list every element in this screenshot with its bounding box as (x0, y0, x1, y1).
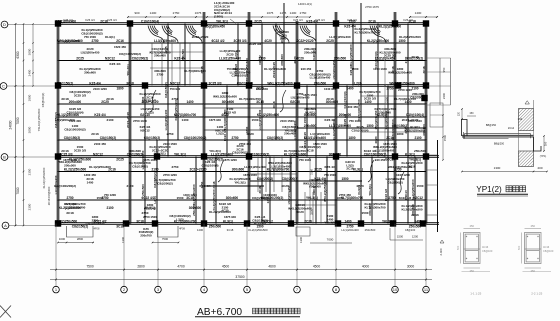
svg-text:200: 200 (537, 166, 542, 170)
svg-text:6300: 6300 (16, 51, 20, 58)
svg-text:KL7(3)300x700: KL7(3)300x700 (223, 109, 227, 130)
svg-text:KL9(1): KL9(1) (105, 35, 115, 39)
svg-text:L2(3): L2(3) (176, 217, 183, 221)
column KZ9 (142, 82, 148, 88)
column KZ20 (246, 153, 252, 159)
svg-text:4600: 4600 (268, 264, 276, 268)
axis bubble 10 (392, 286, 399, 293)
svg-text:2100: 2100 (127, 184, 134, 188)
svg-text:1500: 1500 (443, 134, 447, 141)
svg-text:YKL3(1): YKL3(1) (324, 221, 335, 225)
svg-text:L1(1)200x400: L1(1)200x400 (341, 228, 359, 232)
title underline (195, 316, 300, 318)
svg-text:3C18: 3C18 (116, 225, 124, 229)
svg-text:2C22+2C20: 2C22+2C20 (303, 132, 307, 148)
bay dim numbers (63, 35, 422, 219)
svg-text:2C25: 2C25 (164, 46, 168, 54)
svg-text:C10@100(4): C10@100(4) (374, 51, 378, 68)
svg-text:C8@200(2): C8@200(2) (282, 177, 298, 181)
svg-text:KL1(2)250x600: KL1(2)250x600 (332, 119, 336, 140)
svg-text:1520 300: 1520 300 (69, 119, 81, 123)
beam x216 (215, 157, 217, 224)
beam x284 (283, 3, 285, 86)
svg-text:7500: 7500 (162, 237, 169, 241)
svg-text:250x500: 250x500 (304, 124, 317, 128)
column line x130 (128, 21, 130, 224)
svg-text:C8@100: C8@100 (543, 249, 554, 253)
column KZ23 (423, 153, 429, 159)
svg-text:2C16: 2C16 (411, 213, 419, 217)
YP1 bottom rebar (464, 132, 509, 139)
column KZ28 (244, 220, 250, 226)
subcell block 3 (361, 95, 426, 97)
svg-text:N2C12: N2C12 (258, 55, 262, 65)
YP1 left dim (461, 109, 463, 119)
svg-text:C8@100/200(2): C8@100/200(2) (54, 184, 76, 188)
svg-text:1400: 1400 (182, 118, 189, 122)
svg-text:2750: 2750 (231, 136, 238, 140)
column KZ12 (294, 82, 300, 88)
beam x145 (144, 86, 146, 224)
svg-text:C8@200(2): C8@200(2) (232, 151, 247, 155)
svg-text:6C22 4/2: 6C22 4/2 (384, 189, 388, 202)
svg-text:3C25 3/3: 3C25 3/3 (74, 148, 87, 152)
svg-text:250: 250 (531, 269, 536, 273)
svg-text:2C25: 2C25 (326, 39, 334, 43)
axis B leader (8, 156, 58, 158)
axis bubble A (2, 222, 9, 229)
svg-text:YKL3(1): YKL3(1) (209, 149, 221, 153)
axis bubble 11 (423, 286, 430, 293)
svg-text:2-2 1:25: 2-2 1:25 (531, 292, 542, 296)
svg-text:2100: 2100 (107, 118, 114, 122)
svg-text:LL3(1)250x400: LL3(1)250x400 (304, 136, 326, 140)
svg-text:2C22+2C20: 2C22+2C20 (126, 112, 130, 128)
top dimension line (128, 16, 310, 18)
column KZ30 (335, 220, 341, 226)
extra clusters (54, 35, 426, 217)
axis bubble 3 (155, 286, 162, 293)
svg-text:KL2(2)250x500: KL2(2)250x500 (212, 189, 216, 210)
svg-text:4C20: 4C20 (264, 39, 272, 43)
svg-text:N2C12: N2C12 (93, 152, 103, 156)
svg-text:2C22+2C20: 2C22+2C20 (192, 35, 209, 39)
svg-text:C8@200(2): C8@200(2) (257, 177, 273, 181)
interior vdim x385 (384, 60, 386, 156)
svg-text:AB+6.700: AB+6.700 (197, 307, 242, 318)
beam x378 (377, 24, 379, 157)
svg-text:L2(3): L2(3) (146, 110, 153, 114)
svg-text:1500: 1500 (366, 124, 373, 128)
svg-text:300x600: 300x600 (280, 54, 284, 66)
svg-text:C8@150(2): C8@150(2) (144, 136, 160, 140)
svg-text:C8@150(2): C8@150(2) (64, 136, 80, 140)
svg-text:C10@100(4): C10@100(4) (201, 163, 218, 167)
svg-text:N2C12: N2C12 (170, 81, 180, 85)
svg-text:6C22 4/2: 6C22 4/2 (212, 39, 225, 43)
section detail 1 (461, 229, 481, 269)
svg-text:2100 1200: 2100 1200 (93, 87, 107, 91)
svg-text:1200: 1200 (412, 235, 419, 239)
svg-text:1400: 1400 (197, 228, 204, 232)
beam x327 (326, 157, 328, 224)
YP1 step (534, 137, 542, 151)
right edge rungs (426, 154, 438, 156)
svg-text:L2(3): L2(3) (153, 196, 157, 203)
svg-text:2350: 2350 (28, 168, 32, 175)
svg-text:2C16: 2C16 (61, 149, 69, 153)
svg-text:500: 500 (517, 245, 521, 250)
svg-text:N2C12: N2C12 (312, 185, 316, 195)
svg-text:2.400: 2.400 (439, 248, 443, 255)
svg-text:3C25 3/3: 3C25 3/3 (74, 93, 87, 97)
svg-text:2C16: 2C16 (326, 97, 334, 101)
svg-text:2100: 2100 (404, 56, 408, 63)
svg-text:L5(2)200x450: L5(2)200x450 (86, 222, 105, 226)
sub dim right (390, 228, 423, 240)
svg-text:1400 450: 1400 450 (84, 173, 96, 177)
svg-text:WKL2(2)250x600: WKL2(2)250x600 (245, 58, 249, 82)
svg-text:KL1(2)250x600: KL1(2)250x600 (349, 44, 353, 65)
svg-text:2800: 2800 (137, 264, 145, 268)
svg-text:3C18: 3C18 (136, 219, 144, 223)
svg-text:L5(2)200x450: L5(2)200x450 (332, 60, 336, 79)
grid line D beam (56, 22, 427, 24)
interior vdim x310 (309, 158, 311, 222)
svg-text:KZ6 4/4: KZ6 4/4 (107, 18, 117, 22)
beam x408 (407, 24, 409, 224)
svg-text:L2(3): L2(3) (234, 51, 238, 58)
svg-text:N2C12: N2C12 (140, 128, 150, 132)
svg-text:3C18: 3C18 (422, 66, 426, 74)
beam x361 (360, 3, 362, 224)
svg-text:G2C10: G2C10 (385, 158, 395, 162)
svg-text:(YP1): (YP1) (540, 155, 547, 158)
svg-text:1300: 1300 (121, 237, 125, 243)
svg-text:3C18: 3C18 (306, 148, 314, 152)
svg-text:2C16: 2C16 (116, 39, 124, 43)
column KZ13 (333, 82, 339, 88)
grid line C beam (56, 84, 427, 86)
svg-text:KL2(2)250x500: KL2(2)250x500 (248, 228, 268, 232)
svg-text:2C25: 2C25 (304, 219, 312, 223)
mid leader curves (150, 90, 404, 194)
svg-text:250x500: 250x500 (314, 81, 327, 85)
svg-text:KL9(1): KL9(1) (353, 167, 363, 171)
column KZ11 (246, 82, 252, 88)
beam x372 (371, 157, 373, 224)
svg-text:G2C10: G2C10 (312, 50, 316, 60)
svg-text:KZ6 4/4: KZ6 4/4 (403, 18, 413, 22)
svg-text:250x500: 250x500 (334, 56, 347, 60)
svg-text:C8@150(2): C8@150(2) (153, 172, 157, 187)
svg-text:1400 L3(1): 1400 L3(1) (298, 2, 312, 6)
svg-text:C8@150(2): C8@150(2) (57, 81, 73, 85)
svg-text:2800: 2800 (77, 237, 84, 241)
column KZ33 (420, 220, 426, 226)
svg-text:C14: C14 (518, 118, 523, 121)
beam y43 (58, 42, 426, 44)
svg-text:2100 450: 2100 450 (94, 142, 106, 146)
svg-text:2C16: 2C16 (346, 167, 354, 171)
svg-text:B: B (3, 154, 6, 159)
svg-text:KZ6 4/4: KZ6 4/4 (63, 18, 73, 22)
right dim ladder2 (442, 115, 444, 160)
svg-text:6C22 4/2: 6C22 4/2 (254, 222, 267, 226)
svg-text:1400: 1400 (414, 219, 421, 223)
svg-text:KZ6 4/4: KZ6 4/4 (89, 81, 101, 85)
column KZ15 (423, 82, 429, 88)
column KZ25 (123, 220, 129, 226)
svg-text:WKL2(2)250x600: WKL2(2)250x600 (388, 165, 413, 169)
svg-text:250x500: 250x500 (141, 184, 145, 196)
svg-text:150: 150 (469, 112, 474, 115)
svg-text:1040 1040: 1040 1040 (373, 67, 387, 71)
svg-text:L1(1)200x400: L1(1)200x400 (384, 110, 388, 129)
svg-text:C8@200(2): C8@200(2) (157, 181, 172, 185)
svg-text:2750: 2750 (167, 132, 174, 136)
svg-text:L5(2)200x450: L5(2)200x450 (60, 39, 80, 43)
column KZ22 (392, 153, 398, 159)
svg-text:10: 10 (393, 287, 398, 292)
svg-text:KL1(2)250x600: KL1(2)250x600 (89, 165, 111, 169)
svg-text:LL3(1)250x400: LL3(1)250x400 (258, 109, 262, 130)
svg-text:2750: 2750 (173, 11, 180, 15)
svg-text:2400: 2400 (28, 69, 32, 76)
column KZ1 (55, 20, 61, 26)
svg-text:2750 1200: 2750 1200 (163, 173, 177, 177)
svg-text:C8@150(2): C8@150(2) (100, 136, 116, 140)
column KZ26 (152, 220, 158, 226)
svg-text:4C20: 4C20 (281, 184, 289, 188)
svg-text:C: C (2, 83, 5, 88)
svg-text:6C22 4/2: 6C22 4/2 (399, 196, 412, 200)
svg-text:YKL3(1): YKL3(1) (306, 196, 318, 200)
axis dropper 8 (335, 224, 337, 287)
beam x388 (387, 86, 389, 224)
svg-text:2C22+2C20: 2C22+2C20 (189, 167, 206, 171)
beam annotations (55, 19, 424, 228)
axis bubble 2 (121, 286, 128, 293)
svg-text:7000: 7000 (16, 187, 20, 194)
svg-text:3C25 3/3: 3C25 3/3 (209, 81, 222, 85)
svg-text:250: 250 (531, 224, 536, 228)
svg-text:2C14: 2C14 (508, 126, 515, 130)
svg-text:750 1500: 750 1500 (324, 173, 336, 177)
svg-text:200x400: 200x400 (69, 100, 82, 104)
svg-text:300x600: 300x600 (129, 149, 141, 153)
svg-text:WKL2(2)250x600: WKL2(2)250x600 (323, 178, 327, 202)
svg-text:940 450: 940 450 (301, 67, 312, 71)
YP1 left upturn (462, 120, 468, 137)
svg-text:C8@200: C8@200 (405, 228, 416, 232)
left subdim vertical (32, 24, 34, 86)
svg-text:KL7(3)300x700: KL7(3)300x700 (184, 69, 206, 73)
svg-text:C10@100(4): C10@100(4) (351, 128, 368, 132)
svg-text:1400: 1400 (290, 11, 297, 15)
svg-text:940 450: 940 450 (375, 158, 386, 162)
svg-text:2C25: 2C25 (76, 56, 84, 60)
svg-text:1400: 1400 (150, 11, 157, 15)
svg-text:4C20: 4C20 (374, 136, 378, 144)
dim slashes on beams (57, 23, 59, 25)
svg-text:KL2(2)250x500: KL2(2)250x500 (379, 25, 402, 29)
YP1 detail slab (462, 134, 534, 136)
YP1 wall top line (533, 100, 535, 109)
YP1 right dim (543, 136, 545, 151)
svg-text:250: 250 (470, 269, 475, 273)
svg-text:2750: 2750 (388, 196, 395, 200)
svg-text:250x500: 250x500 (414, 149, 426, 153)
svg-text:C8@100/200(2): C8@100/200(2) (247, 152, 270, 156)
svg-text:300x600: 300x600 (226, 196, 239, 200)
svg-text:LL3(1)250x400: LL3(1)250x400 (164, 109, 168, 130)
svg-text:KZ6 4/4: KZ6 4/4 (315, 18, 325, 22)
vertical beam annotations (54, 36, 426, 216)
svg-text:KL9(1): KL9(1) (305, 110, 314, 114)
svg-text:1520 1500: 1520 1500 (313, 142, 327, 146)
svg-text:250x500: 250x500 (64, 163, 76, 167)
beam y200 (58, 199, 426, 201)
svg-text:1520 1040: 1520 1040 (408, 119, 422, 123)
svg-text:750 1200: 750 1200 (104, 193, 116, 197)
svg-text:B8@200: B8@200 (494, 142, 505, 146)
svg-text:1800: 1800 (28, 94, 32, 101)
svg-text:2750: 2750 (172, 165, 179, 169)
svg-text:YKL10(1)250x500: YKL10(1)250x500 (37, 108, 41, 131)
svg-text:2750: 2750 (172, 97, 179, 101)
axis dropper 11 (425, 224, 427, 287)
beam y171.5 (58, 171, 426, 173)
svg-text:LL3(1)250x400: LL3(1)250x400 (154, 39, 176, 43)
svg-text:YKL3(1): YKL3(1) (368, 184, 372, 195)
svg-text:KL2(2)250x500: KL2(2)250x500 (55, 219, 78, 223)
svg-text:YP1(2): YP1(2) (476, 185, 502, 194)
svg-text:3C25 3/3: 3C25 3/3 (144, 99, 157, 103)
svg-text:2100: 2100 (414, 136, 421, 140)
svg-text:3150: 3150 (385, 97, 389, 103)
svg-text:1300: 1300 (299, 237, 303, 243)
svg-text:1675 1200: 1675 1200 (223, 158, 237, 162)
svg-text:3C25 3/3: 3C25 3/3 (234, 39, 247, 43)
svg-text:300x600: 300x600 (84, 70, 96, 74)
svg-text:750 1040: 750 1040 (299, 158, 311, 162)
svg-text:3C18: 3C18 (126, 81, 134, 85)
column KZ4 (246, 20, 252, 26)
svg-text:LL3(1)250x400: LL3(1)250x400 (270, 164, 291, 168)
svg-text:1500: 1500 (303, 116, 307, 123)
svg-text:300x600: 300x600 (222, 100, 235, 104)
svg-text:WKL2(2)250x600: WKL2(2)250x600 (213, 94, 237, 98)
svg-text:4F08: 4F08 (179, 228, 185, 231)
svg-text:WKL2(2)250x600: WKL2(2)250x600 (389, 81, 415, 85)
svg-text:4500: 4500 (313, 264, 321, 268)
axis bubble B (1, 154, 8, 161)
axis dropper 2 (123, 224, 125, 287)
svg-text:C8@150(2): C8@150(2) (164, 82, 168, 97)
svg-text:1500: 1500 (417, 184, 424, 188)
svg-text:YKL3(1): YKL3(1) (154, 152, 165, 156)
svg-text:KZ6 4/4: KZ6 4/4 (347, 18, 357, 22)
beam y181 (250, 180, 362, 182)
svg-text:4C20: 4C20 (280, 36, 284, 44)
top note block (214, 1, 235, 19)
svg-text:3C25 3/3: 3C25 3/3 (249, 42, 262, 46)
svg-text:1040 1200: 1040 1200 (396, 173, 410, 177)
svg-text:24600: 24600 (9, 120, 13, 129)
beam x276 (275, 24, 277, 141)
svg-text:2750: 2750 (66, 196, 73, 200)
svg-text:1800: 1800 (397, 132, 404, 136)
svg-text:KL12(1)250x500: KL12(1)250x500 (42, 167, 46, 188)
axis dropper 1 (55, 224, 57, 287)
svg-text:LL3(1)250x400: LL3(1)250x400 (310, 76, 331, 80)
svg-text:37500: 37500 (235, 275, 244, 279)
svg-text:1400: 1400 (87, 180, 94, 184)
column KZ27 (201, 220, 207, 226)
axis C leader (7, 85, 58, 87)
column KZ5 (333, 20, 339, 26)
svg-text:4C20: 4C20 (293, 56, 297, 64)
svg-text:1300: 1300 (494, 166, 501, 170)
svg-text:1500: 1500 (352, 67, 359, 71)
svg-text:C8@200(2): C8@200(2) (132, 56, 148, 60)
beam x185 (184, 24, 186, 86)
svg-text:KL7(3)300x700: KL7(3)300x700 (284, 149, 306, 153)
column KZ2 (127, 20, 133, 26)
svg-text:1040 1040: 1040 1040 (263, 193, 277, 197)
column KZ32 (390, 220, 396, 226)
svg-text:KL7(3)300x700: KL7(3)300x700 (391, 119, 395, 140)
svg-text:250x500: 250x500 (192, 204, 196, 216)
svg-text:750 940: 750 940 (170, 87, 181, 91)
svg-text:3000: 3000 (28, 48, 32, 55)
top right dim (410, 16, 437, 18)
svg-text:250x500: 250x500 (181, 49, 185, 61)
svg-text:900: 900 (134, 11, 139, 15)
svg-text:C10@100(4): C10@100(4) (66, 110, 83, 114)
svg-text:1675 1500: 1675 1500 (383, 142, 397, 146)
svg-text:1675 1040: 1675 1040 (243, 173, 257, 177)
column KZ17 (55, 153, 61, 159)
beam x415 (414, 157, 416, 224)
YP1 wall hatch lower (519, 151, 534, 167)
svg-text:KL1(2)250x600: KL1(2)250x600 (411, 179, 415, 200)
svg-text:KZ6 4/4: KZ6 4/4 (293, 18, 303, 22)
bottom dimension line 2 (50, 279, 432, 281)
svg-text:4500: 4500 (222, 264, 230, 268)
svg-text:3000: 3000 (407, 264, 415, 268)
column line x336 (334, 12, 336, 224)
svg-text:4C16: 4C16 (482, 245, 489, 249)
svg-text:KZ6 4/4: KZ6 4/4 (94, 113, 106, 117)
svg-text:250x700: 250x700 (140, 233, 152, 237)
svg-text:C10@100(4): C10@100(4) (406, 113, 424, 117)
svg-text:2400: 2400 (442, 92, 446, 99)
svg-text:L5(2)200x450: L5(2)200x450 (205, 25, 225, 29)
column KZ8 (55, 82, 61, 88)
svg-text:1400: 1400 (346, 87, 353, 91)
svg-text:2750 1675: 2750 1675 (365, 5, 379, 9)
svg-text:250: 250 (470, 224, 475, 228)
svg-text:7000: 7000 (327, 238, 334, 242)
svg-text:LL3(1)250x400: LL3(1)250x400 (244, 165, 266, 169)
col3 note cluster (139, 227, 154, 237)
svg-text:D: D (3, 22, 6, 27)
svg-text:2750 1200: 2750 1200 (398, 88, 412, 92)
svg-text:KL2(2)250x500: KL2(2)250x500 (399, 35, 421, 39)
svg-text:300x600: 300x600 (232, 167, 245, 171)
